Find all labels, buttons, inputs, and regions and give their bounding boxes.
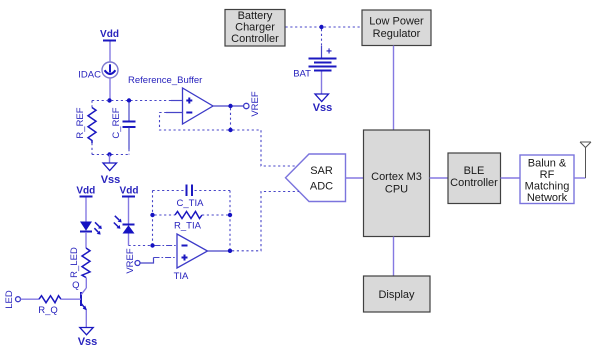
svg-text:BAT: BAT <box>293 69 311 80</box>
svg-text:Vdd: Vdd <box>100 29 119 40</box>
wire VREF terminal to TIA + input <box>140 258 177 264</box>
resistor R_Q <box>38 296 61 316</box>
wire buffer output to VREF terminal <box>213 105 244 107</box>
svg-text:Charger: Charger <box>235 22 275 34</box>
wire (dashed) reference rail to buffer + input <box>92 100 183 102</box>
svg-text:R_LED: R_LED <box>69 247 80 278</box>
node junction feedback to SAR branch <box>228 128 232 132</box>
capacitor C_TIA <box>153 185 231 210</box>
svg-text:Cortex M3: Cortex M3 <box>371 171 422 183</box>
node junction TIA inverting input <box>150 243 154 247</box>
svg-text:SAR: SAR <box>310 165 333 177</box>
antenna <box>580 142 591 148</box>
wire Q emitter to ground <box>85 310 87 328</box>
node junction buffer output <box>228 104 232 108</box>
svg-text:Balun &: Balun & <box>528 158 567 170</box>
ground Vss (battery) <box>313 94 333 114</box>
wire R_LED to Q collector <box>85 278 87 289</box>
resistor R_TIA <box>155 212 229 232</box>
wire photodiode to TIA input node <box>129 234 151 246</box>
svg-text:VREF: VREF <box>125 248 136 274</box>
battery BAT <box>293 47 336 95</box>
resistor R_LED <box>69 247 90 278</box>
wire (dashed) charger to regulator <box>286 26 363 28</box>
node junction R_TIA right <box>228 213 232 217</box>
svg-text:+: + <box>326 47 332 58</box>
svg-text:Matching: Matching <box>525 181 570 193</box>
wire (dashed) TIA output to SAR ADC lower input <box>232 192 299 251</box>
svg-text:Vss: Vss <box>313 102 333 114</box>
svg-text:C_TIA: C_TIA <box>177 198 205 209</box>
svg-text:CPU: CPU <box>385 184 408 196</box>
svg-text:Vdd: Vdd <box>120 186 139 197</box>
power Vdd (LED branch) <box>76 186 95 222</box>
block Battery Charger Controller <box>225 10 285 47</box>
wire balun to antenna <box>574 148 586 179</box>
svg-text:Vss: Vss <box>78 336 98 348</box>
node junction battery tap <box>319 25 323 29</box>
svg-text:BLE: BLE <box>464 165 485 177</box>
resistor R_REF <box>75 101 96 155</box>
svg-text:Controller: Controller <box>450 177 498 189</box>
node junction C_REF top <box>127 98 131 102</box>
current source IDAC <box>78 62 118 100</box>
adc SAR ADC <box>286 154 346 202</box>
wire battery tap down to battery <box>321 29 323 58</box>
svg-text:Low Power: Low Power <box>369 16 424 28</box>
wire BLE to balun <box>501 177 521 179</box>
svg-text:TIA: TIA <box>174 271 189 282</box>
svg-text:Controller: Controller <box>231 33 279 45</box>
node junction IDAC output <box>107 98 111 102</box>
svg-text:Reference_Buffer: Reference_Buffer <box>128 75 202 86</box>
wire (dashed) reference bottom rail <box>92 154 129 156</box>
wire CPU to BLE controller <box>430 177 449 179</box>
photodiode D2 with incident arrows <box>114 216 135 234</box>
svg-text:Q: Q <box>72 280 79 291</box>
wire CPU to display <box>393 237 395 277</box>
wire regulator to CPU <box>393 46 395 131</box>
wire TIA output <box>208 250 230 252</box>
wire (dashed) VREF node to SAR ADC upper input <box>233 130 298 166</box>
svg-text:Display: Display <box>378 289 415 301</box>
wire (dash-dot) node to TIA - input <box>155 245 178 247</box>
svg-text:C_REF: C_REF <box>111 107 122 138</box>
wire (dashed) feedback right rail <box>229 191 231 249</box>
op-amp U1 Reference_Buffer <box>128 75 213 124</box>
transistor Q (NPN) <box>72 280 87 310</box>
block Balun RF Matching Network <box>520 155 574 204</box>
block Display <box>364 276 431 312</box>
ground Vss (reference network) <box>101 163 121 186</box>
svg-text:IDAC: IDAC <box>78 70 101 81</box>
terminal VREF (buffer output) <box>244 91 261 117</box>
wire SAR ADC to CPU <box>346 177 364 179</box>
svg-text:ADC: ADC <box>310 181 333 193</box>
svg-text:VREF: VREF <box>250 91 261 117</box>
svg-text:Vdd: Vdd <box>76 186 95 197</box>
svg-text:Vss: Vss <box>101 174 121 186</box>
svg-text:Network: Network <box>527 192 568 204</box>
svg-text:Regulator: Regulator <box>373 28 421 40</box>
LED D1 with emission arrows <box>80 222 102 235</box>
op-amp U2 TIA <box>174 234 208 282</box>
block Cortex M3 CPU <box>364 130 430 237</box>
wire (dashed) feedback left rail <box>152 191 154 244</box>
svg-text:R_REF: R_REF <box>75 107 86 138</box>
wire (dashed) feedback buffer output to - input <box>160 108 231 130</box>
capacitor C_REF <box>111 102 135 155</box>
power Vdd (photodiode branch) <box>120 186 139 225</box>
svg-text:RF: RF <box>540 169 555 181</box>
svg-text:R_Q: R_Q <box>38 305 58 316</box>
node junction TIA output <box>228 249 232 253</box>
wire LED to R_LED <box>85 232 87 248</box>
wire LED terminal to R_Q <box>21 298 40 300</box>
block Low Power Regulator <box>362 10 431 46</box>
ground Vss (Q emitter) <box>78 328 98 349</box>
svg-text:LED: LED <box>4 290 15 309</box>
wire bottom rail to ground <box>109 155 111 164</box>
svg-text:Battery: Battery <box>238 10 273 22</box>
node junction bottom rail <box>107 152 111 156</box>
svg-text:R_TIA: R_TIA <box>174 221 202 232</box>
power Vdd (IDAC branch) <box>100 29 119 62</box>
node junction R_TIA left <box>150 213 154 217</box>
wire R_Q to Q base <box>61 298 81 300</box>
terminal LED drive input <box>4 290 20 309</box>
terminal VREF (TIA non-inverting input) <box>125 248 140 274</box>
block BLE Controller <box>448 153 501 204</box>
